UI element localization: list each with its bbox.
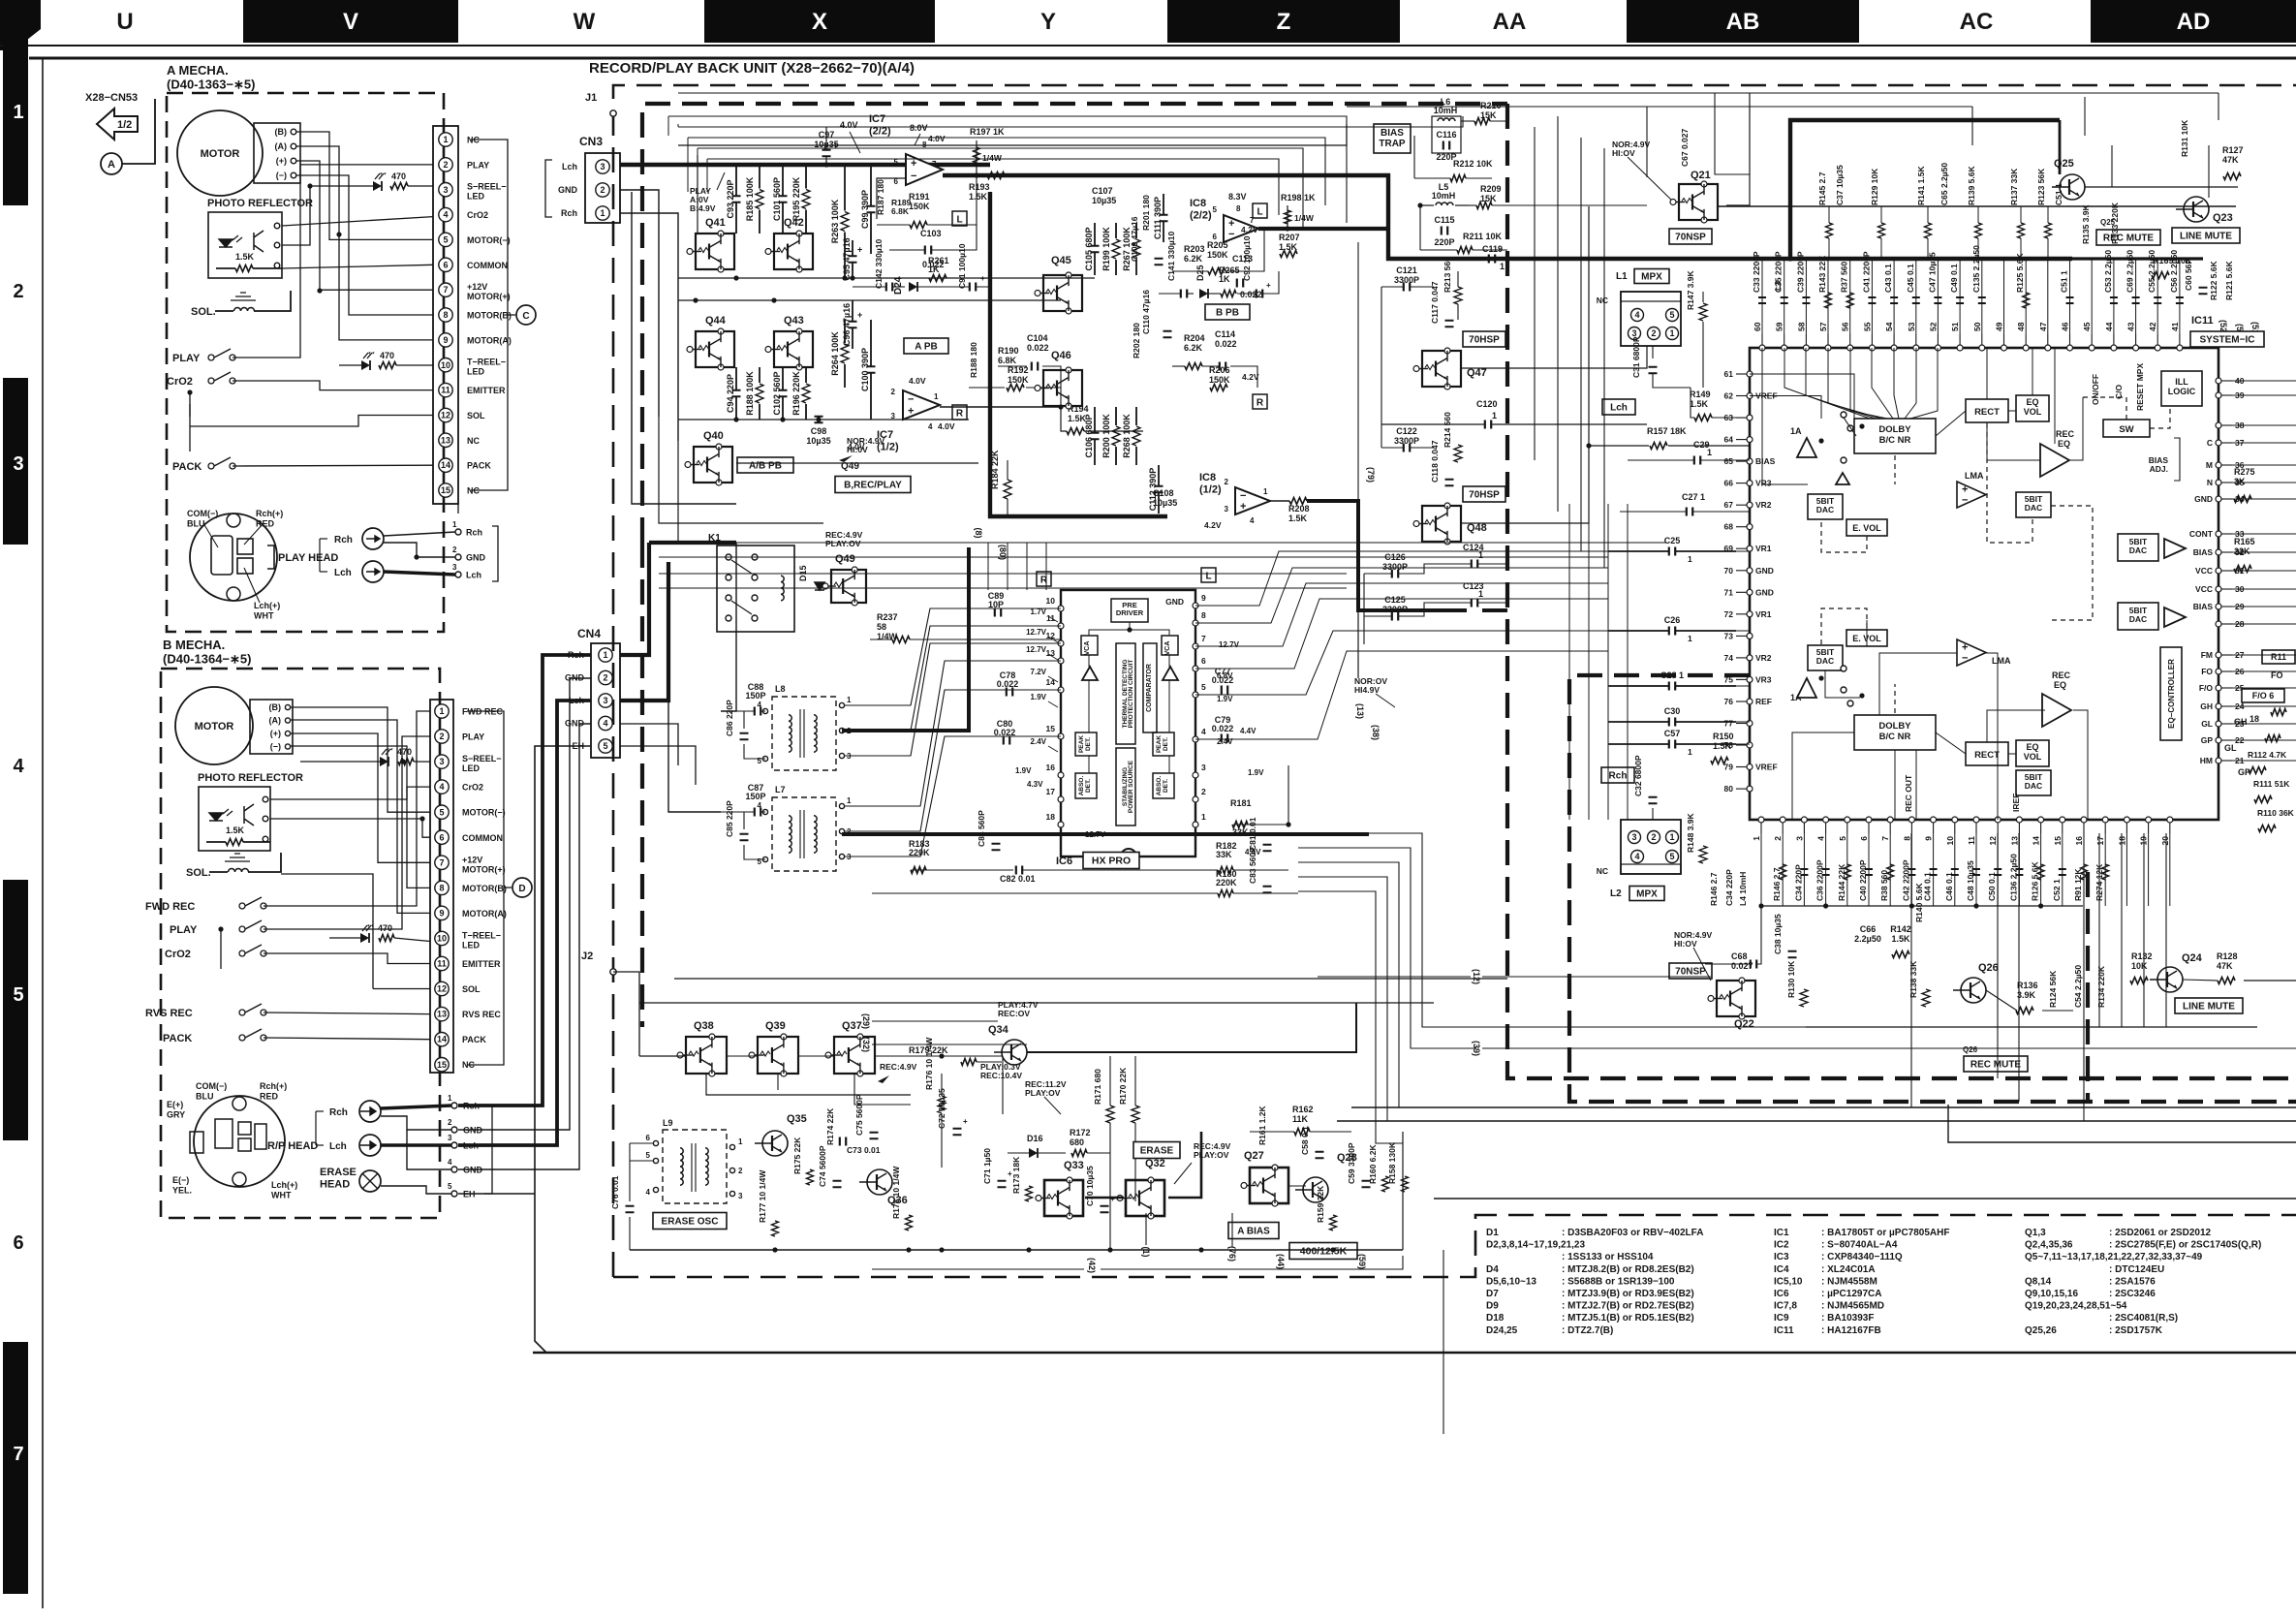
IC11 pin 64 (1747, 437, 1753, 443)
A-conn pin 9 (439, 333, 452, 347)
svg-text:COMPARATOR: COMPARATOR (1146, 664, 1153, 712)
svg-text:D25: D25 (1195, 265, 1205, 281)
svg-text:REC:4.9VPLAY:OV: REC:4.9VPLAY:OV (825, 530, 863, 548)
IC11 pin 1 (1758, 817, 1764, 823)
svg-text:C32 6800P: C32 6800P (1633, 755, 1643, 796)
ref bubble (79) (1366, 467, 1376, 483)
IC11 pin 63 (1747, 415, 1753, 421)
svg-text:R143 22K: R143 22K (1817, 255, 1827, 293)
svg-text:D9: D9 (1486, 1301, 1499, 1312)
cap bank item R37 560 (1849, 259, 1851, 334)
svg-text:LMA: LMA (1965, 471, 1984, 481)
op-amp IC7 (1/2) (903, 390, 940, 420)
svg-text:10: 10 (1046, 596, 1056, 606)
svg-text:DET.: DET. (1163, 737, 1169, 751)
svg-text:B PB: B PB (1216, 308, 1239, 319)
svg-text:61: 61 (1724, 369, 1734, 379)
IC11 pin 10 (1952, 817, 1958, 823)
A-conn pin 5 (439, 233, 452, 246)
svg-text:NC: NC (1597, 866, 1608, 876)
svg-text:1A: 1A (1790, 426, 1802, 436)
long verticals right of bias trap (1534, 127, 1536, 460)
svg-text:12.7V: 12.7V (1085, 830, 1106, 839)
svg-text:U: U (116, 9, 133, 35)
boxed label A/B PB (737, 457, 793, 473)
svg-text:D24: D24 (893, 276, 904, 295)
vertical wire x=1490 (1443, 1250, 1444, 1434)
svg-text:C54 2.2µ50: C54 2.2µ50 (2073, 965, 2083, 1008)
svg-text:CrO2: CrO2 (467, 210, 488, 220)
svg-text:5: 5 (448, 1182, 452, 1191)
svg-text:R145 2.7: R145 2.7 (1817, 171, 1827, 205)
svg-text:63: 63 (1724, 413, 1734, 422)
svg-text:A PB: A PB (915, 342, 938, 353)
low bank item C44 0.1 (1933, 833, 1935, 906)
svg-text:1.9V: 1.9V (1015, 766, 1032, 775)
svg-text:C76 0.01: C76 0.01 (610, 1175, 620, 1209)
svg-text:2: 2 (603, 673, 607, 683)
verticals right of IC6 (1568, 504, 1570, 820)
PRE DRIVER block (1111, 599, 1148, 622)
cap bank item wire (2091, 259, 2093, 334)
svg-text:+: + (1110, 1195, 1115, 1203)
svg-text:C: C (2207, 438, 2213, 448)
svg-text:C1213300P: C1213300P (1394, 265, 1419, 285)
IC11 pin 20 (2167, 817, 2173, 823)
svg-text:12: 12 (1988, 836, 1998, 846)
svg-text:C87150P: C87150P (745, 783, 765, 801)
svg-text:4: 4 (928, 422, 933, 431)
svg-text:220P: 220P (1434, 237, 1454, 247)
svg-text:GP: GP (2201, 735, 2214, 745)
boxed letter L (B PB) (1253, 203, 1267, 218)
low bank item wire (2169, 833, 2171, 906)
svg-text:DET.: DET. (1085, 737, 1092, 751)
boxed letter R (A PB) (952, 405, 967, 420)
svg-text:+: + (963, 1117, 968, 1126)
photo reflector LED (219, 239, 233, 247)
svg-text:FO: FO (2201, 667, 2213, 676)
B-conn pin 6 (435, 830, 449, 844)
svg-text:C790.022: C790.022 (1212, 715, 1234, 733)
svg-text:D5,6,10~13: D5,6,10~13 (1486, 1276, 1536, 1287)
svg-text:Q45: Q45 (1051, 255, 1071, 266)
top region horizontal feedback wires (668, 116, 1347, 223)
svg-text:J1: J1 (585, 92, 597, 104)
svg-text:15: 15 (441, 485, 450, 495)
svg-text:2: 2 (1651, 832, 1656, 842)
A mecha connector strip (433, 126, 458, 504)
left tab bar (3, 29, 28, 205)
svg-text:R268 100K: R268 100K (1122, 414, 1132, 458)
svg-text:Q39: Q39 (765, 1020, 786, 1032)
5BIT DAC block right2 + buffer (2118, 603, 2158, 630)
svg-text:−: − (908, 394, 914, 406)
svg-text:15: 15 (1046, 724, 1056, 733)
svg-text:R134 220K: R134 220K (2096, 965, 2106, 1008)
boxed label B PB (1205, 304, 1250, 320)
wires heads to IC6 zone verticals (987, 543, 989, 590)
svg-text:+: + (911, 158, 916, 170)
ref bubble (8) (974, 528, 983, 539)
column tab (black) AB (1627, 0, 1859, 43)
head conn pin 1 Rch (455, 529, 461, 535)
svg-text:−: − (1228, 229, 1234, 240)
svg-text:6: 6 (439, 832, 444, 842)
svg-text:REC:4.9VPLAY:OV: REC:4.9VPLAY:OV (1194, 1141, 1231, 1160)
svg-text:REC: REC (2052, 670, 2071, 680)
bold bus to caps (2060, 257, 2203, 260)
svg-text:EMITTER: EMITTER (462, 959, 501, 969)
svg-text:62: 62 (1724, 391, 1734, 401)
capacitor C96 47u16 (852, 300, 853, 321)
svg-text:C27 1: C27 1 (1682, 492, 1705, 502)
svg-text:CN3: CN3 (579, 135, 603, 148)
svg-text:2: 2 (1225, 478, 1229, 486)
svg-text:R179 22K: R179 22K (909, 1045, 948, 1055)
svg-text:7: 7 (13, 1444, 23, 1465)
svg-text:Q27: Q27 (1244, 1150, 1264, 1162)
components C105 680P R199 100K R267 100K (1094, 223, 1096, 245)
svg-text:C28 1: C28 1 (1660, 670, 1684, 680)
photo reflector PR1 box (208, 212, 282, 278)
svg-text:R1931.5K: R1931.5K (969, 182, 990, 202)
svg-text:R187 180: R187 180 (876, 179, 885, 215)
svg-text:5: 5 (1838, 836, 1847, 841)
svg-text:R174 22K: R174 22K (825, 1107, 835, 1145)
svg-text:2: 2 (600, 185, 605, 195)
svg-text:1.5K: 1.5K (235, 252, 255, 262)
wires B motor to connector (291, 707, 430, 812)
svg-text:C103: C103 (920, 229, 942, 238)
bold wires CN4 to mid (620, 543, 649, 655)
svg-text:C82 0.01: C82 0.01 (1000, 874, 1036, 884)
A-conn pin 14 (439, 458, 452, 472)
svg-text:3: 3 (1201, 763, 1206, 772)
svg-text:78: 78 (1724, 740, 1734, 750)
long wires transformers to IC6 (845, 608, 1061, 705)
tab underline (0, 45, 2296, 47)
svg-text:L: L (956, 215, 962, 226)
svg-text:70HSP: 70HSP (1469, 490, 1500, 501)
rail mid L (678, 277, 1095, 279)
svg-text:IC6: IC6 (1774, 1289, 1789, 1299)
IC11 pin 70 (1747, 568, 1753, 574)
svg-text:12: 12 (437, 984, 447, 994)
svg-text:C83 560P: C83 560P (1248, 847, 1257, 884)
IC11 pin 54 (1891, 345, 1897, 351)
transistor Q24 (2150, 967, 2183, 992)
svg-text:5: 5 (758, 757, 762, 765)
svg-text:1.9V: 1.9V (1217, 695, 1233, 703)
IC11 pin 25 (2216, 685, 2221, 691)
svg-text:52: 52 (1928, 322, 1938, 331)
switch cluster (R) (1841, 687, 1846, 693)
play head output wires (384, 532, 455, 536)
ref bubbles bottom (1087, 1258, 1097, 1273)
transformer L7 (dashed) (772, 797, 836, 871)
svg-text:14: 14 (2032, 836, 2041, 846)
svg-text:8.0V: 8.0V (910, 123, 928, 133)
low bank item C50 0.1 (1997, 833, 1999, 906)
svg-text:NC: NC (1597, 296, 1608, 305)
wire pin60 down (1762, 348, 1808, 484)
svg-text:13: 13 (441, 435, 450, 445)
svg-text:R91 12K: R91 12K (2073, 868, 2083, 901)
svg-text:1.5K: 1.5K (226, 826, 245, 835)
svg-text:(+): (+) (270, 729, 281, 738)
svg-text:R213 560: R213 560 (1443, 257, 1452, 293)
top long wires above IC11 (1726, 93, 1750, 205)
wires IC6 bottom (911, 869, 1013, 871)
wire pin to REC EQ (2054, 348, 2056, 444)
svg-text:(32): (32) (861, 1037, 871, 1052)
IC11 pin 48 (2023, 345, 2029, 351)
cap bank item C39 2200P (1805, 259, 1807, 334)
svg-text:MOTOR: MOTOR (195, 721, 234, 732)
svg-text:C120: C120 (1476, 399, 1498, 409)
svg-text:Q47: Q47 (1467, 367, 1487, 379)
svg-text:R188 100K: R188 100K (745, 371, 755, 416)
svg-text:(−): (−) (270, 742, 281, 752)
svg-text:R177 10 1/4W: R177 10 1/4W (758, 1169, 767, 1223)
svg-text:5: 5 (1213, 205, 1218, 214)
B mecha connector strip (430, 700, 453, 1073)
svg-text:70: 70 (1724, 566, 1734, 576)
svg-text:Q1,3: Q1,3 (2025, 1228, 2046, 1238)
svg-text:L4 10mH: L4 10mH (1738, 872, 1748, 906)
svg-text:4: 4 (1201, 727, 1206, 736)
svg-text:C141 330µ10: C141 330µ10 (1166, 232, 1176, 281)
svg-text:C81 0.01: C81 0.01 (1248, 817, 1257, 851)
svg-text:PLAY: PLAY (172, 353, 201, 364)
CN4 pin 1 Rch (599, 648, 612, 662)
svg-text:1.9V: 1.9V (1248, 768, 1264, 777)
cap bank item C45 0.1 (1915, 259, 1917, 334)
svg-text:(1): (1) (1141, 1247, 1151, 1258)
bold dashed PCB shield bus 2 (1569, 675, 2296, 1102)
svg-text:: BA10393F: : BA10393F (1821, 1313, 1874, 1324)
svg-text:VCC: VCC (2195, 584, 2213, 594)
lower rail 2 (1806, 1026, 2257, 1028)
svg-text:R: R (956, 409, 964, 420)
components C93 R185 C101 R195 (L play eq) (735, 165, 737, 196)
svg-text:: 2SC4081(R,S): : 2SC4081(R,S) (2109, 1313, 2178, 1324)
svg-text:Lch: Lch (569, 696, 584, 705)
svg-text:GND: GND (1165, 597, 1184, 607)
svg-text:C53 2.2µ50: C53 2.2µ50 (2103, 250, 2113, 293)
svg-text:R185 100K: R185 100K (745, 176, 755, 221)
svg-text:R264 100K: R264 100K (830, 331, 840, 376)
IC11 pin 9 (1931, 817, 1937, 823)
cap bank item wire (2047, 259, 2049, 334)
boxed label BIAS TRAP (1374, 124, 1411, 153)
head conn pin 3 Lch (455, 572, 461, 577)
svg-text:R133 220K: R133 220K (2110, 202, 2120, 244)
photo reflector PR2 box (199, 787, 270, 851)
svg-text:5BITDAC: 5BITDAC (2129, 606, 2148, 624)
svg-text:R2081.5K: R2081.5K (1288, 504, 1310, 523)
svg-text:L1: L1 (1616, 271, 1628, 282)
svg-text:PACK: PACK (462, 1035, 486, 1044)
svg-text:R/P HEAD: R/P HEAD (267, 1140, 318, 1152)
svg-text:Q34: Q34 (988, 1024, 1009, 1036)
link GND2 to CN4 pin4 (458, 724, 591, 1169)
svg-text:Q43: Q43 (784, 315, 804, 327)
svg-text:PACK: PACK (467, 461, 491, 471)
boxed label 400/12.5K (1289, 1243, 1357, 1260)
cap bank item C49 0.1 (1959, 259, 1961, 334)
svg-text:2: 2 (13, 281, 23, 302)
svg-text:C770.022: C770.022 (1212, 667, 1234, 685)
svg-text:C26: C26 (1664, 615, 1681, 625)
svg-text:C25: C25 (1664, 536, 1681, 545)
wire top frame 1 (678, 124, 1347, 145)
IC11 pin 12 (1995, 817, 2001, 823)
DOLBY B/C NR block (L) (1854, 419, 1936, 453)
svg-text:470: 470 (397, 747, 412, 757)
IC11 interior wires (left pins to dolby) (1750, 374, 1854, 419)
low bank item R38 560 (1889, 833, 1891, 906)
IC11 pin 39 (2216, 392, 2221, 398)
svg-text:C118 0.047: C118 0.047 (1430, 440, 1440, 483)
svg-text:GH: GH (2200, 701, 2213, 711)
svg-text:Q21: Q21 (1691, 170, 1711, 181)
svg-text:41: 41 (2170, 322, 2180, 331)
svg-text:VREF: VREF (1755, 763, 1778, 772)
boxed label LINE MUTE (bottom) (2175, 998, 2243, 1013)
bold line to L8 pin2 (842, 547, 969, 731)
svg-text:(A): (A) (269, 716, 282, 726)
svg-text:1: 1 (1201, 812, 1206, 822)
VCA amps (1082, 667, 1098, 680)
svg-text:C112 390P: C112 390P (1148, 468, 1158, 512)
svg-text:COMMON: COMMON (467, 261, 508, 270)
svg-text:GND: GND (1755, 587, 1774, 597)
svg-text:MOTOR(A): MOTOR(A) (462, 909, 507, 919)
svg-text:M: M (2206, 460, 2213, 470)
svg-text:+: + (857, 310, 862, 320)
svg-text:IC3: IC3 (1774, 1252, 1789, 1262)
svg-text:DOLBYB/C NR: DOLBYB/C NR (1878, 424, 1911, 446)
svg-text:1: 1 (600, 208, 605, 218)
svg-text:6: 6 (1201, 656, 1206, 666)
svg-text:R141 1.5K: R141 1.5K (1916, 166, 1926, 205)
wire CN3 Rch down (620, 213, 678, 441)
svg-text:13: 13 (1046, 648, 1056, 658)
svg-text:: BA17805T or µPC7805AHF: : BA17805T or µPC7805AHF (1821, 1228, 1949, 1238)
svg-text:18: 18 (1046, 812, 1056, 822)
svg-text:C106 680P: C106 680P (1084, 414, 1094, 457)
svg-text:L2: L2 (1610, 888, 1622, 899)
svg-text:53: 53 (1907, 322, 1916, 331)
svg-text:: MTZJ5.1(B) or RD5.1ES(B2): : MTZJ5.1(B) or RD5.1ES(B2) (1562, 1313, 1694, 1324)
svg-text:IC1: IC1 (1774, 1228, 1789, 1238)
node D bubble (504, 887, 512, 888)
svg-text:(39): (39) (1472, 1041, 1481, 1056)
svg-text:L7: L7 (775, 785, 786, 794)
bold audio bus from CN3 Lch (620, 163, 990, 167)
wires Q47/Q48 collector to IC11 (1461, 346, 1647, 368)
svg-text:(12): (12) (1472, 969, 1481, 984)
wire pin to EQ VOL (2032, 348, 2033, 395)
svg-text:R211 10K: R211 10K (1463, 232, 1503, 241)
svg-text:R198 1K: R198 1K (1281, 193, 1316, 202)
svg-text:Q46: Q46 (1051, 350, 1071, 361)
svg-text:GL: GL (2201, 719, 2213, 729)
connector X28-CN53 arrow 1/2 (97, 109, 138, 140)
boxed label LINE MUTE (top) (2172, 228, 2240, 243)
svg-text:R11: R11 (2271, 652, 2286, 662)
svg-text:ABSO.: ABSO. (1078, 776, 1085, 796)
svg-text:C71 1µ50: C71 1µ50 (982, 1148, 992, 1184)
svg-text:GH: GH (2234, 717, 2248, 727)
svg-text:PLAY: PLAY (467, 160, 489, 170)
svg-text:65: 65 (1724, 456, 1734, 466)
B-conn pin 4 (435, 780, 449, 794)
svg-text:C57: C57 (1664, 729, 1681, 738)
svg-text:70NSP: 70NSP (1675, 967, 1706, 978)
IC11 pin 29 (2216, 604, 2221, 609)
bold rec bus top (1790, 120, 2060, 259)
node A bubble (101, 153, 122, 174)
column tab (black) V (243, 0, 458, 43)
svg-text:D24,25: D24,25 (1486, 1325, 1518, 1336)
motor terminal box B (250, 700, 293, 754)
svg-text:15: 15 (437, 1060, 447, 1070)
svg-text:CrO2: CrO2 (462, 783, 483, 793)
main PCB dashed boundary (613, 85, 2296, 1277)
svg-text:EH: EH (572, 741, 584, 751)
svg-text:A BIAS: A BIAS (1237, 1227, 1270, 1237)
low bank item R274 12K (2104, 833, 2106, 906)
svg-text:C47 10µ35: C47 10µ35 (1927, 252, 1937, 293)
svg-text:−: − (1240, 490, 1246, 502)
IC11 SYSTEM-IC outline (1750, 348, 2218, 820)
svg-text:C67 0.027: C67 0.027 (1680, 129, 1690, 167)
svg-text:Z: Z (1277, 9, 1291, 35)
svg-text:R199 100K: R199 100K (1101, 227, 1111, 271)
boxed letter L (IC6) (1201, 568, 1216, 582)
COMPARATOR block (1143, 643, 1157, 732)
A-conn right bracket (471, 140, 508, 490)
svg-text:RESET MPX: RESET MPX (2135, 363, 2145, 411)
svg-text:C49 0.1: C49 0.1 (1949, 264, 1959, 293)
svg-text:SW: SW (2119, 424, 2133, 435)
svg-text:R171 680: R171 680 (1093, 1069, 1102, 1105)
IC11 pin 78 (1747, 742, 1753, 748)
low bank item C40 2200P (1868, 833, 1870, 906)
cap bank item C135 2.2µ50 (1981, 259, 1983, 334)
svg-text:5BITDAC: 5BITDAC (2025, 494, 2043, 513)
IC11 pin 40 (2216, 378, 2221, 384)
svg-text:: HA12167FB: : HA12167FB (1821, 1325, 1881, 1336)
svg-text:7: 7 (1880, 836, 1890, 841)
resistor R179 22K (961, 1059, 977, 1066)
svg-text:1: 1 (1688, 634, 1692, 643)
boxed label ERASE (1133, 1142, 1180, 1159)
svg-text:EMITTER: EMITTER (467, 386, 506, 395)
svg-text:C800.022: C800.022 (994, 719, 1016, 737)
LED D (T-REEL) with resistor 470 (361, 352, 375, 370)
svg-text:3: 3 (891, 412, 896, 421)
DOLBY B/C NR block (R) (1854, 715, 1936, 750)
svg-text:12: 12 (441, 411, 450, 421)
svg-text:HX PRO: HX PRO (1092, 856, 1131, 867)
svg-text:3: 3 (452, 563, 457, 572)
boxed label A PB (904, 338, 948, 354)
svg-text:R181: R181 (1230, 798, 1252, 808)
